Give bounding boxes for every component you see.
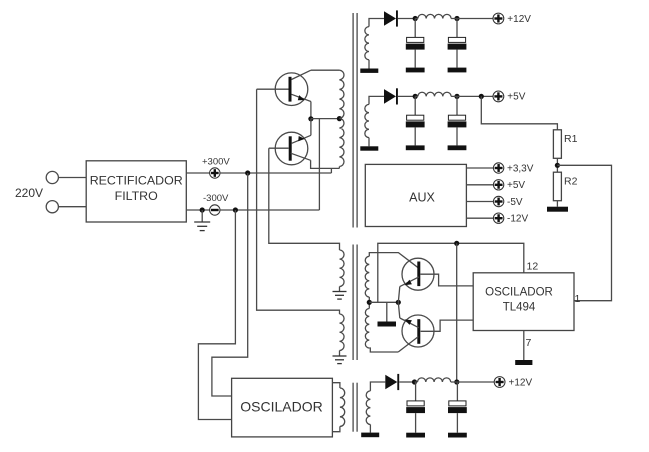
wire Q1 base run to driver primary 2 [257,89,340,314]
wire node to L1 [415,18,418,20]
svg-text:AUX: AUX [409,191,435,205]
wire T2 top rail [378,243,524,302]
wire center tap to emitter node [369,301,398,303]
ground bar C1 [406,68,425,73]
transformer T1 core [353,13,357,228]
inductor L1 [418,14,451,18]
ground under -300V rail [194,210,210,231]
transformer T3 secondary winding [366,391,370,425]
svg-text:-300V: -300V [203,193,229,204]
ground bar T3 secondary [361,433,379,438]
wire OSCILADOR to T3 primary top [332,383,340,388]
wire rail down to +12V low row [456,243,458,382]
diode D2 [384,88,398,104]
transformer T3 primary winding [340,388,345,426]
diode D3 [385,374,399,390]
ground bar R2 [547,207,568,212]
wire T3 secondary bottom stub [369,425,371,433]
terminal +3.3V [493,163,503,173]
wire OSCILADOR to T3 primary bottom [332,426,340,431]
wire Q2 base [269,147,289,149]
svg-text:FILTRO: FILTRO [115,189,158,203]
node +5V sense tap [479,94,484,99]
capacitor C6 [448,382,467,433]
terminal neutral N [46,201,58,213]
node half-bridge midpoint [308,116,313,121]
ground T2 P2 [333,356,347,364]
ground bar C4 [448,145,467,150]
svg-text:+12V: +12V [509,377,533,388]
transformer T1 primary winding [339,70,344,166]
wire Q4 collector to T2 secondary bottom [369,348,398,352]
node on +300V rail [245,170,250,175]
svg-text:+300V: +300V [202,157,230,168]
transformer T1 secondary winding S1 [365,27,369,60]
wire Q4 emitter to junction [398,302,400,318]
wire Q2 emitter to midpoint node [310,119,312,136]
wire tap branch down to -300V rail [318,119,320,210]
node +5V filter out [454,94,459,99]
ground bar S2 [360,146,378,150]
resistor R2 [553,172,561,201]
wire +5V sense to R1 [481,96,557,129]
wire Q2 base run to driver primary 1 [269,148,340,250]
wire L3 to +12V terminal [451,381,495,383]
transistor Q3 [400,258,434,290]
node +5V filter in [413,94,418,99]
terminal -12V [493,213,503,223]
transformer T1 secondary winding S2 [365,104,369,137]
transformer T2 secondary lower half [365,309,369,348]
svg-text:-5V: -5V [507,197,523,208]
wire Q4 base to TL494 [421,320,474,331]
wire AUX to -5V terminal [466,201,493,203]
wire AUX to +3.3V terminal [466,167,493,169]
wire S2 top to diode D2 [369,96,384,104]
wire S1 bottom stub [368,60,370,69]
node low +12V filter out [454,379,459,384]
wire +300V feed up to primary bottom [330,168,332,173]
wire divider tap to TL494 pin 1 [557,165,611,300]
transformer T2 core [353,245,357,361]
svg-text:OSCILADOR: OSCILADOR [485,287,553,299]
wire +300V rail [220,172,331,174]
inductor L3 [418,378,451,382]
svg-text:+5V: +5V [507,92,525,103]
wire T1 primary bottom stub [338,167,340,169]
diode D1 [384,10,398,26]
wire TL494 pin 7 to ground [523,331,525,361]
wire rectifier to +300V terminal [186,172,209,174]
wire T2 P2 ground stub [339,351,341,357]
capacitor C4 [448,96,467,145]
wire R1 to R2 [556,158,558,172]
wire -300V rail [220,209,319,211]
transistor Q4 [398,315,434,352]
wire Q1 collector to T1 primary top [311,69,340,71]
svg-text:R1: R1 [564,133,578,145]
wire emitter node ground stub [386,302,388,321]
svg-text:R2: R2 [564,176,578,188]
ground bar C6 [448,433,467,438]
node rail to bottom feed [454,241,459,246]
node -300V rail branch [233,207,238,212]
wire L1 to +12V terminal [451,18,493,20]
transformer T3 core [353,383,357,432]
capacitor C3 [406,96,425,145]
capacitor C1 [406,19,425,68]
terminal AUX +5V [493,180,503,190]
node T2 center tap [367,300,372,305]
resistor R1 [553,130,561,159]
wire D3 to node [399,381,414,383]
terminal line L [46,171,58,183]
transistor Q1 [275,70,311,105]
wire node to L2 [415,95,418,97]
svg-text:OSCILADOR: OSCILADOR [240,399,322,415]
wire AUX to -12V terminal [466,217,493,219]
svg-text:220V: 220V [15,186,43,200]
ground bar emitter node [378,322,397,327]
wire Q3 base to TL494 [420,274,473,286]
wire midpoint to T1 primary tap [311,118,340,120]
wire D2 to node [398,95,415,97]
svg-text:RECTIFICADOR: RECTIFICADOR [90,173,183,187]
block RECTIFICADOR FILTRO [86,161,186,222]
transformer T2 secondary upper half [365,256,369,297]
wire T2 secondary tap stub [368,297,370,309]
wire D1 to node [398,18,415,20]
svg-text:1: 1 [575,293,581,305]
wire L to rectifier [58,177,86,179]
wire node to L3 [415,381,418,383]
node -300V ground tap [200,207,205,212]
svg-text:+12V: +12V [507,14,531,25]
capacitor C5 [406,382,425,433]
wire L2 to +5V terminal [451,95,493,97]
svg-text:+5V: +5V [507,180,525,191]
wire rectifier to -300V terminal [186,209,209,211]
terminal -5V [493,196,503,206]
wire +300V branch down to oscillator pin A [212,173,248,396]
wire S2 bottom stub [368,138,370,147]
transformer T2 primary winding P1 [340,250,345,286]
block OSCILADOR TL494 [473,273,574,331]
wire Q3 emitter to junction [398,287,400,303]
block OSCILADOR [232,378,333,437]
wire N to rectifier [58,206,86,208]
wire T2 P1 ground stub [339,287,341,292]
wire Q2 collector to T1 primary bottom [311,160,340,168]
wire T3 secondary top to diode D3 [370,382,385,391]
svg-text:+3,3V: +3,3V [507,163,534,174]
svg-text:TL494: TL494 [503,302,536,314]
terminal +300V [210,168,220,178]
transformer T2 primary winding P2 [340,314,345,350]
node Q3 Q4 emitter junction [396,300,401,305]
node +12V filter out [454,16,459,21]
ground T2 P1 [333,292,347,300]
svg-text:7: 7 [526,337,532,349]
terminal +5V [493,91,504,102]
ground bar S1 [360,69,378,73]
node +12V filter in [413,16,418,21]
ground bar C2 [448,68,467,73]
capacitor C2 [448,19,467,68]
wire Q1 base [257,88,289,90]
wire Q1 emitter to midpoint node [310,102,312,119]
svg-text:-12V: -12V [507,214,528,225]
terminal low +12V [494,377,505,388]
wire R2 to ground [556,201,558,207]
wire S1 top to diode D1 [369,19,384,27]
wire -300V branch down to oscillator pin B [198,210,235,420]
svg-text:12: 12 [527,261,539,273]
terminal -300V [210,205,220,215]
ground bar C5 [406,433,425,438]
inductor L2 [418,92,451,96]
wire T2 secondary top to Q3 collector [369,253,418,268]
node low +12V filter in [412,379,417,384]
block AUX [365,164,466,226]
node divider tap [555,163,560,168]
ground bar C3 [406,145,425,150]
ground bar pin 7 [515,360,532,365]
wire AUX to +5V terminal [466,184,493,186]
node T1 primary center tap [337,116,342,121]
transistor Q2 [275,132,311,165]
terminal +12V [493,13,504,24]
